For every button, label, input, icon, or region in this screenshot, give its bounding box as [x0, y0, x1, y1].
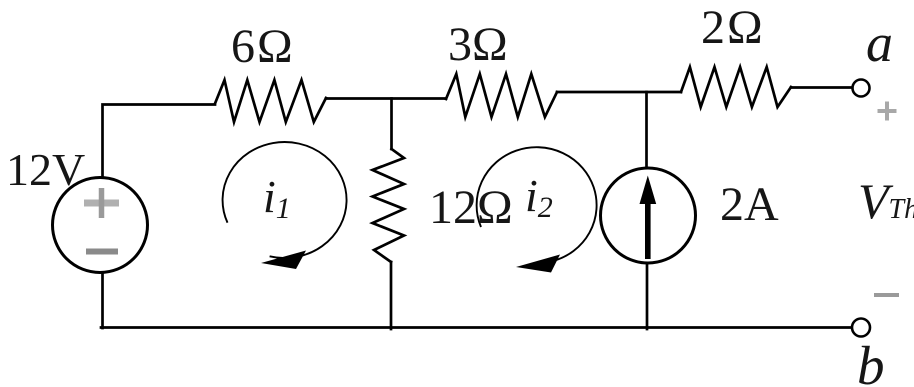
resistor R 6ohm zigzag: [215, 80, 326, 122]
svg-text:b: b: [857, 335, 885, 387]
current source arrow: [640, 176, 657, 260]
wire 6ohm to 3ohm: [326, 97, 446, 100]
voltage source V1 12V circle: [53, 178, 148, 273]
svg-text:12Ω: 12Ω: [429, 181, 513, 234]
wire 2ohm to terminal a: [791, 86, 852, 89]
wire 2A branch top: [645, 92, 648, 168]
wire 12ohm branch bottom: [390, 262, 393, 329]
svg-text:2A: 2A: [720, 178, 779, 231]
svg-text:3Ω: 3Ω: [448, 18, 508, 71]
svg-text:a: a: [866, 13, 893, 73]
wire source left bottom: [101, 272, 104, 329]
svg-text:i2: i2: [525, 170, 553, 224]
svg-text:6Ω: 6Ω: [231, 20, 295, 73]
wire top-left corner: [103, 105, 216, 179]
wire bottom rail: [101, 326, 852, 329]
mesh current i2 arc: [477, 147, 597, 261]
current source I1 2A circle: [601, 168, 696, 263]
mesh current i2 arrowhead: [516, 255, 560, 273]
mesh current i1 arc: [223, 142, 347, 258]
resistor R 3ohm zigzag: [446, 74, 557, 117]
plus sign at terminal a: [878, 102, 897, 121]
wire 2A branch bottom: [646, 263, 649, 329]
terminal a circle: [853, 80, 870, 97]
svg-text:VTh: VTh: [858, 173, 914, 229]
resistor R 2ohm zigzag: [681, 67, 791, 107]
voltage source minus sign: [86, 249, 118, 255]
wire 3ohm to 2ohm: [557, 91, 681, 94]
wire 12ohm branch top: [390, 99, 393, 150]
terminal b circle: [852, 319, 870, 337]
minus sign at terminal b: [874, 293, 899, 297]
resistor R 12ohm vertical zigzag: [373, 149, 405, 262]
voltage source plus sign: [84, 188, 119, 218]
svg-text:2Ω: 2Ω: [701, 1, 765, 54]
mesh current i1 arrowhead: [261, 251, 306, 270]
svg-text:i1: i1: [263, 171, 291, 225]
svg-text:12V: 12V: [6, 144, 85, 195]
